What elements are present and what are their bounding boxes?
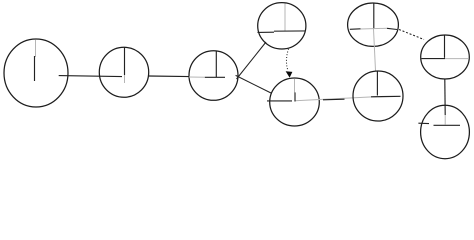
node C hand horizontal xyxy=(205,76,225,78)
node I circle xyxy=(421,105,470,158)
node E circle xyxy=(270,78,320,126)
node D hand right xyxy=(274,30,306,32)
node F circle xyxy=(348,3,399,46)
node H circle xyxy=(421,35,470,79)
node A hand xyxy=(34,56,36,81)
node H faint horizontal guide xyxy=(445,58,468,60)
node A faint radius guide xyxy=(35,40,37,58)
node I left tick xyxy=(418,122,429,124)
node G hand vertical xyxy=(376,72,378,96)
node H hand horizontal xyxy=(422,58,446,60)
node B circle xyxy=(99,47,148,97)
wire C-E xyxy=(236,75,271,93)
node G circle xyxy=(353,71,403,121)
wire H-I xyxy=(444,79,446,115)
wire B-C xyxy=(149,75,190,78)
node E hand horizontal xyxy=(267,100,292,102)
wire D-E dotted xyxy=(286,49,288,71)
node B hand xyxy=(124,48,126,76)
wire C-D xyxy=(237,42,267,79)
wire F-G faint xyxy=(374,29,376,71)
node E hand vertical xyxy=(294,92,296,101)
node D hand left xyxy=(258,31,275,33)
node F hand right xyxy=(387,28,397,29)
node B faint radius guide xyxy=(124,75,126,83)
wire A-B xyxy=(59,76,122,77)
node A circle xyxy=(4,39,68,107)
node H hand vertical xyxy=(444,35,446,58)
arrowhead D-E xyxy=(287,72,292,77)
wire F-H dashed xyxy=(399,30,424,40)
node E faint radius guide xyxy=(294,79,296,93)
node D faint radius guide xyxy=(284,4,286,32)
node G hand horizontal xyxy=(371,95,401,98)
node I hand horizontal xyxy=(434,124,461,126)
node F hand vertical xyxy=(373,4,375,29)
node C circle xyxy=(189,51,238,101)
node F faint horizontal guide xyxy=(361,27,388,30)
node C hand vertical xyxy=(215,52,217,78)
node E faint horizontal guide (to G) xyxy=(295,97,377,101)
node D circle xyxy=(258,3,306,49)
wire E-G xyxy=(323,98,345,101)
node C faint guide xyxy=(189,76,205,78)
node F hand left xyxy=(350,28,361,31)
wire H-I faint continuation xyxy=(444,115,446,125)
